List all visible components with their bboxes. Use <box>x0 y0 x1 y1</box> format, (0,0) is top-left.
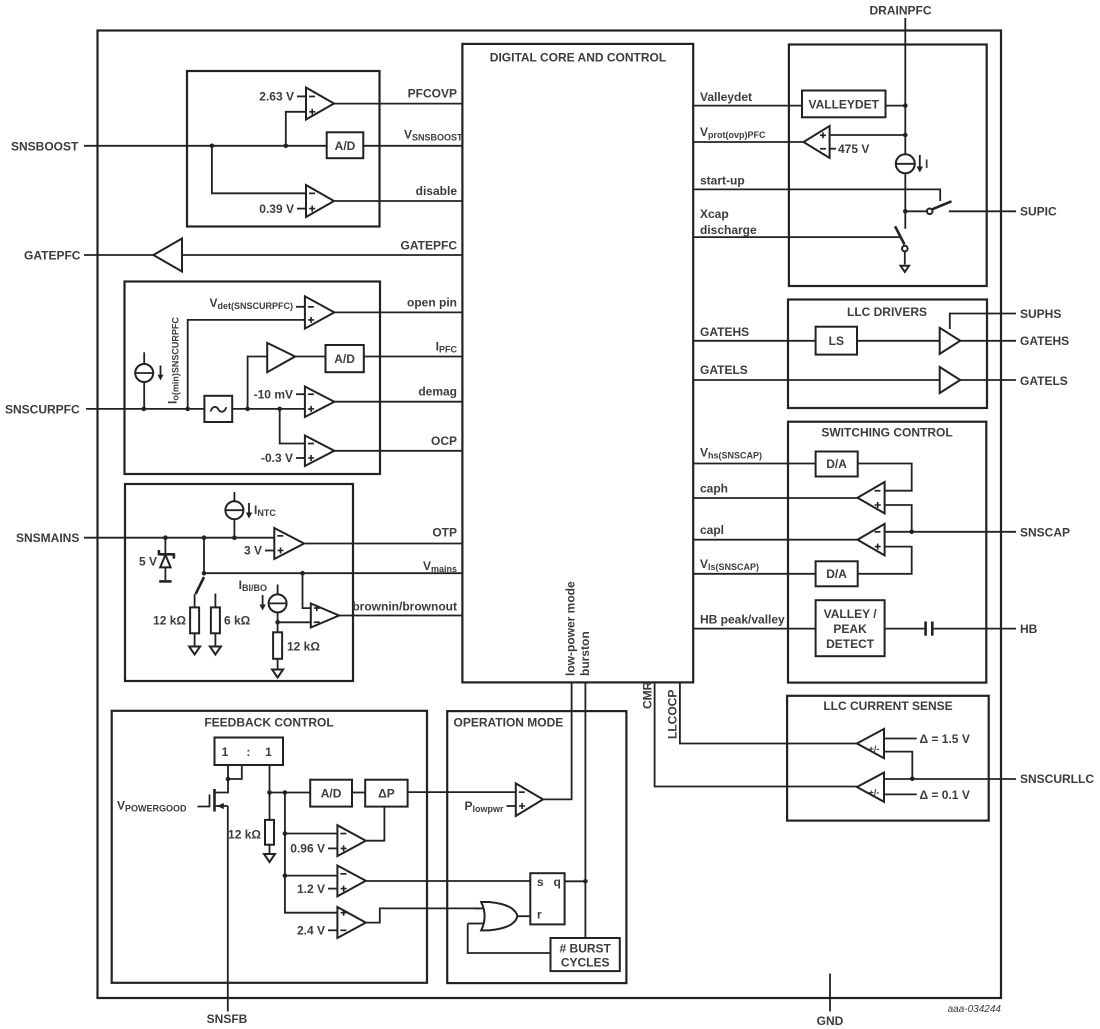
current source INTC <box>225 492 276 538</box>
block: SWITCHING CONTROL <box>788 422 986 683</box>
svg-text:LLC CURRENT SENSE: LLC CURRENT SENSE <box>823 699 952 713</box>
buffer GATEPFC (left pointing) <box>153 239 182 272</box>
svg-text:D/A: D/A <box>826 567 847 581</box>
wire GATEPFC from core <box>182 254 462 256</box>
wire start-up <box>693 189 940 201</box>
wire 2.4V output jog to OR gate <box>366 908 482 922</box>
svg-text:LLC DRIVERS: LLC DRIVERS <box>847 305 927 319</box>
svg-text:2.63 V: 2.63 V <box>259 90 294 104</box>
svg-text:Valleydet: Valleydet <box>700 90 752 104</box>
svg-text:SUPIC: SUPIC <box>1020 205 1057 219</box>
svg-text:start-up: start-up <box>700 173 745 187</box>
svg-text:FEEDBACK CONTROL: FEEDBACK CONTROL <box>204 716 333 730</box>
wire Vls(SNSCAP) <box>693 573 815 575</box>
wire D/A to caph comparator minus <box>858 464 912 491</box>
switch blade to 12k resistor <box>196 577 204 594</box>
wire 0.96V output to deltaP bottom <box>366 807 385 841</box>
svg-text:OPERATION MODE: OPERATION MODE <box>454 716 564 730</box>
block: SNSBOOST sense <box>187 71 380 227</box>
wire GATEHS output <box>960 340 1016 342</box>
svg-text:CYCLES: CYCLES <box>561 956 610 970</box>
svg-text:capl: capl <box>700 523 724 537</box>
svg-text:GATEHS: GATEHS <box>700 325 749 339</box>
svg-text:A/D: A/D <box>335 139 356 153</box>
svg-text:+/-: +/- <box>869 788 880 798</box>
svg-text:-0.3 V: -0.3 V <box>261 451 293 465</box>
IC outer boundary box <box>98 31 1002 999</box>
comparator demag -10mV <box>254 387 335 418</box>
svg-text:3 V: 3 V <box>244 544 262 558</box>
block: startup / Xcap (SUPIC) <box>789 45 987 287</box>
wire CMR vertical <box>655 682 857 786</box>
pin GND <box>817 974 844 1029</box>
wire demag output <box>334 401 462 403</box>
comparator open pin Vdet <box>209 296 334 329</box>
block: SNSCURPFC sense <box>125 282 381 475</box>
wire Xcap discharge <box>693 236 899 238</box>
wire SNSFB down <box>227 806 229 1012</box>
wire Vmains branch <box>204 538 462 574</box>
svg-text:OTP: OTP <box>432 526 457 540</box>
wire A/D output VSNSBOOST <box>363 145 462 147</box>
svg-text:5 V: 5 V <box>139 555 157 569</box>
svg-text:0.96 V: 0.96 V <box>290 842 325 856</box>
pin SNSMAINS <box>16 531 274 545</box>
svg-text:A/D: A/D <box>321 787 342 801</box>
svg-text:discharge: discharge <box>700 223 757 237</box>
buffer GATEHS driver <box>940 328 961 354</box>
svg-text:aaa-034244: aaa-034244 <box>948 1004 1002 1015</box>
svg-text:475 V: 475 V <box>838 142 869 156</box>
svg-text:12 kΩ: 12 kΩ <box>228 828 261 842</box>
svg-text:demag: demag <box>418 385 457 399</box>
node junction current source <box>142 407 147 412</box>
box VALLEYDET <box>802 91 886 118</box>
node junction <box>275 620 280 625</box>
current arrow <box>160 366 162 376</box>
pin GATEPFC <box>24 249 153 263</box>
svg-text::: : <box>246 745 250 759</box>
wire GATELS output <box>960 379 1016 381</box>
wire plus input from rail <box>188 320 305 409</box>
svg-text:SNSCAP: SNSCAP <box>1020 525 1070 539</box>
comparator OCP -0.3V <box>261 436 334 467</box>
node junction <box>210 144 215 149</box>
wire minus input from rail node <box>212 146 306 194</box>
resistor 12k (left) <box>153 594 200 654</box>
wire Vprot(ovp)PFC output <box>693 141 803 143</box>
wire SNSCURPFC rail <box>86 408 204 410</box>
wire OTP output <box>304 543 462 545</box>
block: LLC CURRENT SENSE <box>787 696 989 821</box>
wire open pin output <box>334 311 462 313</box>
svg-text:PFCOVP: PFCOVP <box>408 87 457 101</box>
svg-text:SNSBOOST: SNSBOOST <box>11 140 79 154</box>
wire delta 0.1V label <box>884 793 917 795</box>
wire q output and burston line <box>565 682 586 938</box>
wire rail to A/D <box>270 792 311 794</box>
wire SNSBOOST rail <box>84 145 327 147</box>
wire to comparator minus <box>278 621 311 623</box>
wire capl plus to D/A ls <box>858 547 912 574</box>
svg-text:DETECT: DETECT <box>826 637 875 651</box>
D/A converter box (hs) <box>816 452 858 477</box>
pin DRAINPFC <box>870 4 932 229</box>
current source IBI/BO <box>239 578 287 622</box>
wire VALLEYDET to drain line <box>886 105 906 107</box>
wire OCP output <box>334 450 462 452</box>
svg-text:LLCOCP: LLCOCP <box>666 690 680 739</box>
block: DIGITAL CORE AND CONTROL <box>462 44 693 683</box>
svg-text:1: 1 <box>222 745 229 759</box>
svg-text:# BURST: # BURST <box>560 942 612 956</box>
pin SNSBOOST <box>11 140 327 154</box>
svg-text:OCP: OCP <box>431 434 457 448</box>
wire HB peak/valley <box>693 628 815 630</box>
transistor MOSFET VPOWERGOOD <box>117 789 228 814</box>
pin SNSCURPFC <box>5 402 204 416</box>
comparator 1.2V <box>285 866 366 897</box>
svg-text:HB: HB <box>1020 622 1038 636</box>
wire plus input from drain line <box>830 134 906 136</box>
transformer 1:1 box <box>215 738 284 766</box>
svg-text:open pin: open pin <box>407 295 457 309</box>
wire comparator rail down <box>285 793 338 913</box>
wire SNSMAINS rail <box>84 537 274 539</box>
wire 1:1 right output down <box>269 765 271 820</box>
svg-text:D/A: D/A <box>826 457 847 471</box>
svg-text:PEAK: PEAK <box>833 622 867 636</box>
wire deltaP output to Plowpwr comparator <box>408 791 516 793</box>
wire OR output to r <box>517 915 530 917</box>
svg-text:12 kΩ: 12 kΩ <box>287 640 320 654</box>
block: SNSMAINS sense <box>125 484 353 681</box>
wire to MOSFET drain <box>215 779 229 793</box>
wire U-link under 1:1 box <box>228 765 242 779</box>
svg-text:Xcap: Xcap <box>700 207 729 221</box>
svg-text:12 kΩ: 12 kΩ <box>153 613 186 627</box>
ground Xcap <box>901 251 909 272</box>
wire OCP minus from rail node <box>280 409 305 444</box>
comparator brownin/brownout <box>311 604 339 628</box>
A/D converter box IPFC <box>326 345 364 372</box>
wire comparator output PFCOVP <box>334 103 462 105</box>
box LS level shifter <box>816 327 857 355</box>
wire comparator output disable <box>334 200 462 202</box>
wire 1.2V output to flip-flop s <box>366 880 531 882</box>
wire capl input <box>693 539 857 541</box>
wire GATELS input <box>693 379 940 381</box>
svg-text:caph: caph <box>700 482 728 496</box>
svg-text:SNSMAINS: SNSMAINS <box>16 531 79 545</box>
box VALLEY/PEAK DETECT <box>816 600 885 656</box>
svg-text:disable: disable <box>416 184 458 198</box>
comparator delta 0.1V (left pointing) <box>857 773 884 802</box>
svg-text:I: I <box>925 157 928 171</box>
resistor 12k feedback <box>228 820 275 862</box>
svg-text:GND: GND <box>817 1014 844 1028</box>
comparator 0.96V <box>285 825 366 856</box>
svg-text:burston: burston <box>578 631 592 676</box>
amplifier to A/D <box>245 343 325 411</box>
wire LLCOCP vertical <box>680 682 857 743</box>
svg-text:VALLEYDET: VALLEYDET <box>808 97 879 111</box>
svg-text:0.39 V: 0.39 V <box>259 202 294 216</box>
svg-text:GATELS: GATELS <box>1020 374 1068 388</box>
svg-text:DIGITAL CORE AND CONTROL: DIGITAL CORE AND CONTROL <box>490 51 666 65</box>
wire rail after filter <box>232 408 305 410</box>
svg-text:SWITCHING CONTROL: SWITCHING CONTROL <box>821 425 952 439</box>
svg-text:ΔP: ΔP <box>378 787 395 801</box>
svg-text:s: s <box>537 875 544 889</box>
svg-text:2.4 V: 2.4 V <box>297 924 325 938</box>
switch Xcap <box>895 226 908 251</box>
svg-text:Δ = 0.1 V: Δ = 0.1 V <box>920 788 970 802</box>
svg-text:1: 1 <box>265 745 272 759</box>
box # BURST CYCLES <box>551 938 620 971</box>
wire A/D to deltaP <box>352 792 365 794</box>
comparator OTP 3V <box>244 528 304 559</box>
current source I (startup) <box>896 154 929 173</box>
svg-text:1.2 V: 1.2 V <box>297 882 325 896</box>
svg-text:Δ = 1.5 V: Δ = 1.5 V <box>920 732 970 746</box>
svg-text:SUPHS: SUPHS <box>1020 307 1061 321</box>
svg-text:GATEPFC: GATEPFC <box>401 239 458 253</box>
OR gate <box>468 902 518 930</box>
wire Vhs(SNSCAP) <box>693 463 815 465</box>
filter box (lowpass) <box>204 396 232 422</box>
comparator delta 1.5V (left pointing) <box>857 729 884 758</box>
svg-text:6 kΩ: 6 kΩ <box>224 613 251 627</box>
wire plus input from rail <box>286 112 306 146</box>
block: OPERATION MODE <box>447 711 626 983</box>
wire plus input from Vmains <box>303 573 311 608</box>
wire SNSCAP <box>885 531 1016 533</box>
wire SUPHS <box>950 314 1016 330</box>
svg-text:GATEHS: GATEHS <box>1020 334 1069 348</box>
svg-text:+/-: +/- <box>869 744 880 754</box>
svg-text:-10 mV: -10 mV <box>254 387 293 401</box>
comparator PFCOVP 2.63V <box>259 88 334 120</box>
svg-text:HB peak/valley: HB peak/valley <box>700 612 785 626</box>
capacitor HB <box>885 622 1016 636</box>
wire delta 1.5V label <box>884 738 917 740</box>
wire low-power mode (comparator output up to core) <box>543 682 572 799</box>
svg-text:DRAINPFC: DRAINPFC <box>870 4 932 18</box>
A/D converter box <box>327 132 364 158</box>
svg-text:low-power mode: low-power mode <box>564 581 578 676</box>
svg-text:SNSCURPFC: SNSCURPFC <box>5 402 80 416</box>
svg-text:CMR: CMR <box>641 681 655 709</box>
comparator 2.4V <box>297 907 366 938</box>
svg-text:q: q <box>554 875 561 889</box>
comparator disable 0.39V <box>259 185 334 217</box>
buffer GATELS driver <box>940 367 961 393</box>
wire brownin output <box>339 615 462 617</box>
resistor 6k <box>210 594 251 655</box>
resistor 12k (brownin) <box>272 622 320 677</box>
svg-text:SNSFB: SNSFB <box>207 1012 248 1026</box>
switch SUPIC <box>903 201 1016 214</box>
wire LS to driver <box>857 340 940 342</box>
wire feedback loop from burst cycles <box>468 924 551 954</box>
wire Valleydet <box>693 105 802 107</box>
wire caph input <box>693 497 857 499</box>
wire IPFC output <box>364 356 463 358</box>
comparator Plowpwr <box>464 783 543 816</box>
svg-text:r: r <box>537 908 542 922</box>
svg-text:VALLEY /: VALLEY / <box>824 607 878 621</box>
svg-text:brownin/brownout: brownin/brownout <box>352 600 457 614</box>
svg-text:GATELS: GATELS <box>700 363 748 377</box>
wire GATEHS input <box>693 340 815 342</box>
A/D converter box feedback <box>310 780 352 807</box>
svg-text:GATEPFC: GATEPFC <box>24 249 81 263</box>
wire caph plus to SNSCAP node <box>885 505 912 532</box>
comparator 475V (left pointing) <box>804 126 870 158</box>
node junction <box>284 144 289 149</box>
comparator capl (left pointing) <box>858 524 885 556</box>
svg-text:A/D: A/D <box>334 352 355 366</box>
block: FEEDBACK CONTROL <box>112 711 427 983</box>
deltaP box <box>365 780 407 807</box>
current source Io(min)SNSCURPFC <box>135 352 163 409</box>
svg-text:SNSCURLLC: SNSCURLLC <box>1020 772 1094 786</box>
block: LLC DRIVERS <box>788 300 987 409</box>
wire SNSCURLLC <box>884 778 1016 780</box>
zener diode 5V <box>139 538 174 582</box>
D/A converter box (ls) <box>816 561 858 586</box>
svg-text:LS: LS <box>829 334 844 348</box>
comparator caph (left pointing) <box>858 482 885 513</box>
flip-flop s/r/q <box>530 873 564 924</box>
wire to SNSCURLLC node <box>884 752 912 779</box>
